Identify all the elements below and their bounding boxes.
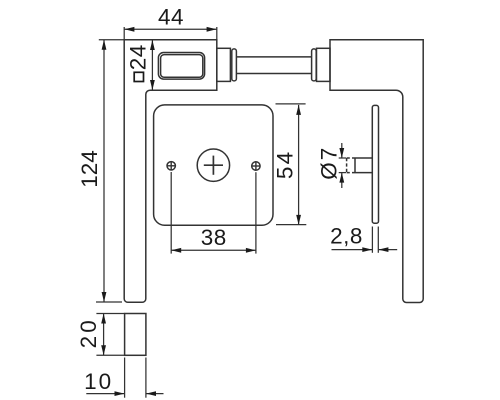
arrowheads	[101, 27, 388, 396]
dim 10 arrow right	[146, 393, 164, 395]
spindle shaft top line	[236, 56, 311, 58]
spindle stub hidden part (dashed)	[347, 158, 355, 173]
dim 38 line	[171, 249, 256, 251]
left spindle collar	[217, 48, 231, 81]
svg-text:124: 124	[77, 150, 102, 188]
dim square24 line	[151, 41, 153, 90]
svg-text:2,8: 2,8	[330, 224, 363, 249]
arrows 44	[124, 27, 134, 32]
svg-text:44: 44	[158, 5, 184, 30]
handle front view outline (grip bar + neck)	[124, 40, 217, 303]
dim 10 extension right	[145, 358, 147, 398]
dim 20 extension bottom	[96, 354, 124, 356]
svg-text:20: 20	[76, 317, 101, 348]
dim 10 extension left	[124, 358, 126, 398]
square glyph of square24	[134, 72, 143, 81]
square rose front view	[154, 105, 273, 225]
dim 44 extension left	[123, 27, 125, 40]
dim dia7 arrow bottom	[341, 173, 343, 188]
bottom piece rect	[125, 314, 146, 356]
dim dia7 arrow top	[341, 143, 343, 158]
dim 124 extension top	[99, 39, 124, 41]
svg-text:10: 10	[84, 369, 113, 394]
arrows dia7	[339, 148, 344, 158]
arrows 124	[102, 40, 107, 50]
svg-text:Ø7: Ø7	[316, 146, 341, 180]
hub cross vertical	[212, 156, 214, 175]
arrows 2,8	[362, 247, 372, 252]
dim 124 extension bottom	[96, 301, 122, 303]
arrows 10	[115, 391, 125, 396]
left spindle flange ring	[232, 49, 237, 81]
svg-text:24: 24	[126, 44, 151, 70]
svg-text:54: 54	[272, 150, 297, 179]
dim 54 line	[298, 105, 300, 225]
hub cross horizontal	[204, 164, 223, 166]
dim 38 extension right	[255, 172, 257, 253]
spindle hub circle	[197, 149, 229, 181]
spindle stub solid part	[355, 158, 372, 173]
handle side view outline (neck + grip bar)	[330, 40, 423, 303]
dim 10 arrow left	[86, 393, 124, 395]
arrows 38	[171, 248, 181, 253]
arrows 20	[101, 314, 106, 324]
right screw	[252, 162, 260, 170]
dim 38 extension left	[170, 172, 172, 254]
dim 44 extension right	[216, 27, 218, 40]
dim 20 line	[103, 314, 105, 356]
dim 54 extension bottom	[276, 224, 306, 226]
dim 2,8 extension left	[371, 227, 373, 253]
spindle shaft bottom line	[236, 73, 311, 75]
dim 20 extension top	[96, 313, 124, 315]
dim dia7 tick top	[339, 157, 346, 159]
rose side view (edge-on plate)	[372, 105, 378, 223]
dim 2,8 arrow right	[378, 249, 397, 251]
arrows square24	[150, 40, 155, 50]
left screw	[167, 162, 175, 170]
dim 2,8 arrow left	[332, 249, 373, 251]
dim 2,8 extension right	[377, 227, 379, 253]
dim 44 line	[124, 28, 217, 30]
arrows 54	[296, 105, 301, 115]
lever cross-section detail outer rounded rect	[158, 53, 204, 80]
svg-text:38: 38	[201, 225, 227, 250]
right spindle collar	[317, 48, 331, 81]
right spindle flange ring	[312, 49, 317, 81]
dim dia7 tick bottom	[339, 172, 346, 174]
dim 124 line	[103, 40, 105, 302]
lever cross-section detail inner rounded rect	[161, 55, 203, 78]
dim 54 extension top	[276, 103, 306, 105]
